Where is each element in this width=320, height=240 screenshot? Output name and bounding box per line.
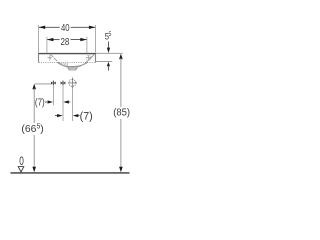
bowl underside lower contour xyxy=(59,62,86,67)
reference line top of basin extended right xyxy=(96,52,123,54)
right fixing hole cross xyxy=(86,55,91,61)
dimension 85 bottom arrowhead pointing down xyxy=(119,167,123,173)
dimension 40 right arrowhead xyxy=(89,26,96,29)
bowl right slope xyxy=(86,54,94,62)
dimension 7 second right leader xyxy=(78,115,80,117)
dimension 7 first left leader xyxy=(45,101,47,103)
extension line left of 28 xyxy=(46,37,48,53)
extension line below tap hole circle xyxy=(71,88,73,121)
dimension 7 first right leader xyxy=(68,101,70,103)
dimension 85 top arrowhead pointing up xyxy=(119,54,123,60)
dimension 28 line right segment xyxy=(71,39,87,41)
dimension 66.5 line upper segment xyxy=(33,89,35,124)
dimension 40 left arrowhead xyxy=(39,26,46,29)
left fixing hole cross xyxy=(47,55,52,61)
basin top edge xyxy=(38,53,96,55)
dimension 7 second left leader xyxy=(55,115,58,117)
basin left edge xyxy=(38,53,40,63)
extension line right of 40 xyxy=(95,25,97,53)
dimension 85 line lower segment xyxy=(120,119,122,167)
dimension 28 line left segment xyxy=(47,39,60,41)
floor line xyxy=(11,172,130,174)
dimension 7 first right arrowhead pointing left xyxy=(63,100,69,103)
svg-text:(7): (7) xyxy=(80,110,93,122)
svg-text:(665): (665) xyxy=(21,124,43,135)
dimension 66.5 line lower segment xyxy=(33,135,35,167)
dimension 66.5 bottom arrowhead pointing down xyxy=(32,167,36,173)
dimension 40 line left segment xyxy=(39,26,60,28)
basin bottom hidden edge dotted xyxy=(39,61,96,63)
bowl underside upper contour xyxy=(58,62,88,66)
extension line right of 28 xyxy=(86,37,88,53)
extension line below left tap marker xyxy=(52,86,54,105)
drain trap left side xyxy=(68,67,78,70)
dimension 7 second right arrowhead pointing left xyxy=(73,114,79,117)
tap hole circle xyxy=(68,78,77,89)
dimension 7 second left arrowhead pointing right xyxy=(57,114,63,117)
dimension 28 left arrowhead xyxy=(47,38,54,41)
dimension 5.5 lower leader line xyxy=(107,66,109,70)
tap hole marker middle (optional position) xyxy=(61,81,66,86)
svg-text:5: 5 xyxy=(108,32,111,38)
hatch ticks under bowl left xyxy=(60,63,68,67)
bowl left slope xyxy=(50,54,58,62)
tap hole marker left (optional position) xyxy=(51,81,56,86)
tap hole reference line xyxy=(35,83,52,85)
dimension 40 line right segment xyxy=(71,26,96,28)
reference line bottom of apron extended right xyxy=(96,61,112,63)
extension line below middle tap marker xyxy=(62,86,64,121)
extension line left of 40 xyxy=(38,25,40,53)
dimension 7 first left arrowhead pointing right xyxy=(48,100,54,103)
dimension 5.5 upper leader line xyxy=(108,42,110,49)
svg-text:28: 28 xyxy=(60,36,69,47)
svg-text:(7): (7) xyxy=(35,96,45,107)
basin right edge xyxy=(95,53,97,63)
ground datum triangle xyxy=(18,167,24,172)
svg-text:40: 40 xyxy=(61,22,70,33)
drain trap inner line xyxy=(68,68,77,70)
dimension 66.5 top arrowhead pointing up xyxy=(32,84,36,90)
dimension 5.5 upper arrowhead pointing down xyxy=(107,48,110,53)
dimension 5.5 lower arrowhead pointing up xyxy=(107,62,110,66)
right fixing hole dashed circle xyxy=(86,55,91,60)
dimension 28 right arrowhead xyxy=(80,38,87,41)
svg-text:(85): (85) xyxy=(113,107,130,118)
dimension 85 line upper segment xyxy=(120,58,122,107)
